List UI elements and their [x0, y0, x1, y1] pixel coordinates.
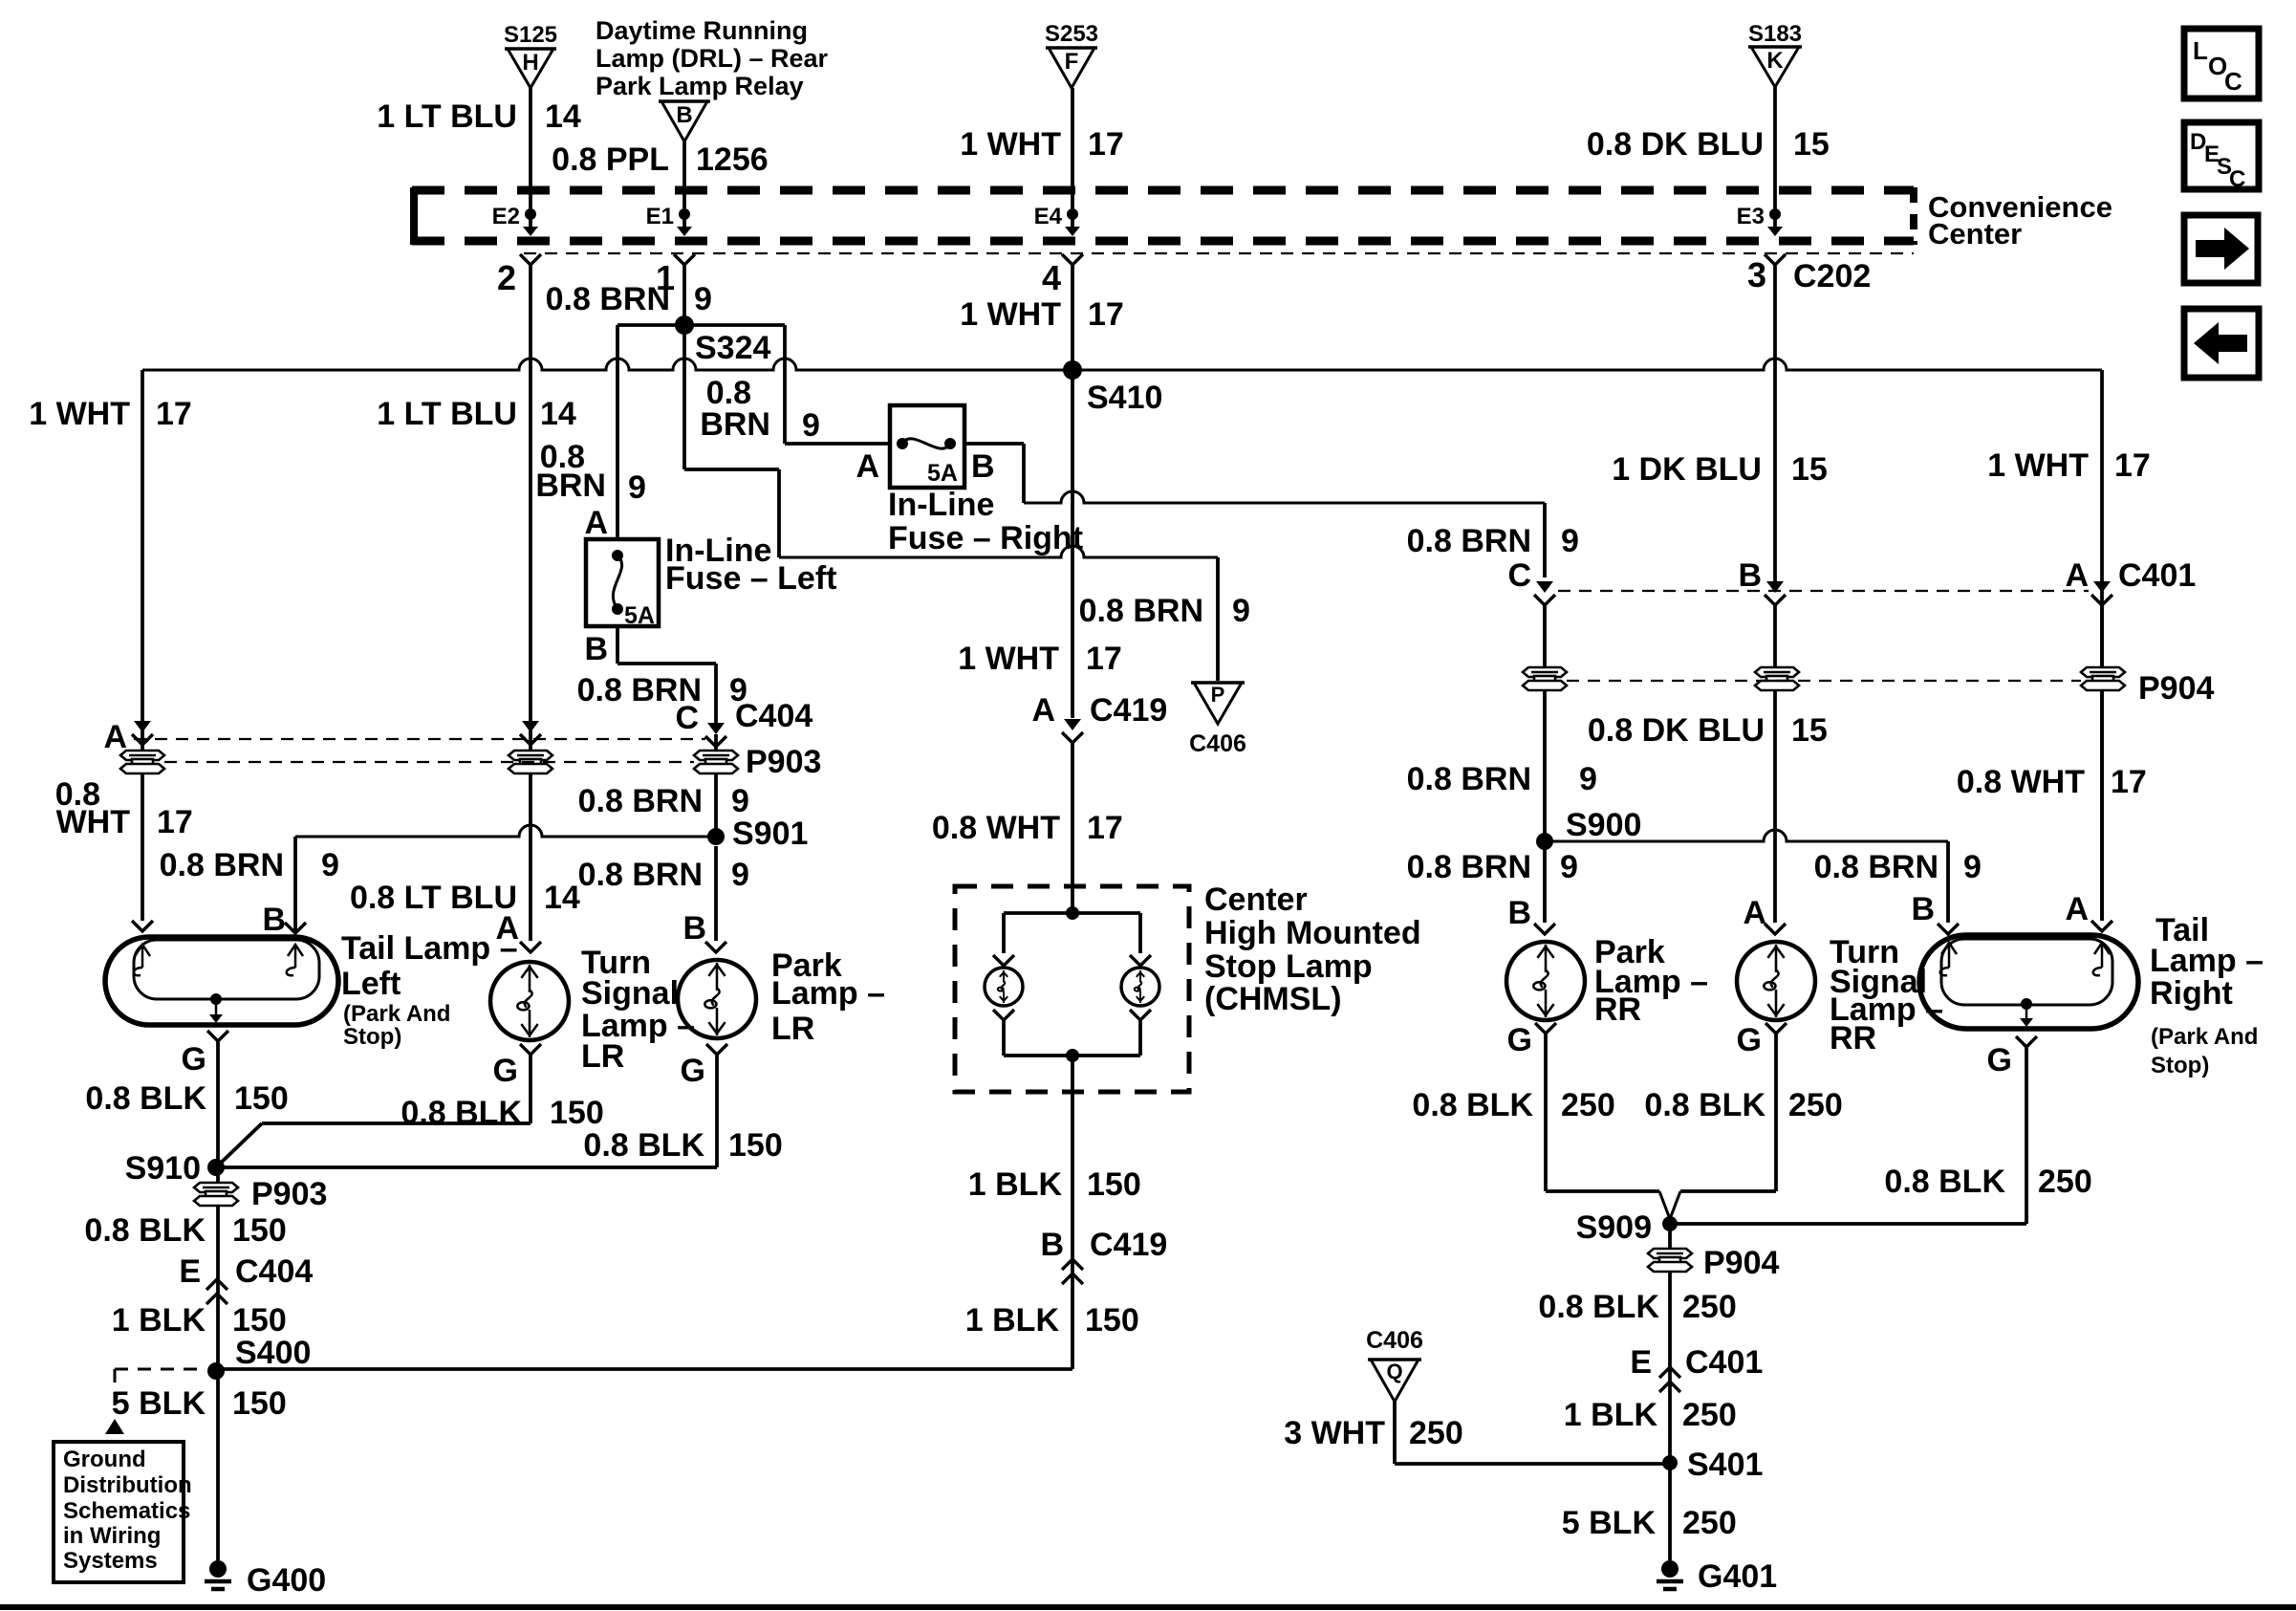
svg-text:Lamp (DRL) – Rear: Lamp (DRL) – Rear — [596, 44, 829, 73]
svg-text:P903: P903 — [251, 1176, 327, 1212]
svg-text:C419: C419 — [1090, 1227, 1167, 1263]
svg-text:150: 150 — [234, 1080, 289, 1117]
svg-text:9: 9 — [1560, 849, 1578, 885]
svg-text:250: 250 — [1682, 1397, 1737, 1433]
svg-text:G: G — [1987, 1042, 2012, 1078]
svg-text:BRN: BRN — [535, 468, 606, 504]
svg-text:A: A — [2065, 557, 2089, 594]
svg-text:S910: S910 — [125, 1150, 201, 1186]
svg-text:0.8 WHT: 0.8 WHT — [932, 810, 1060, 846]
svg-text:0.8 BRN: 0.8 BRN — [578, 857, 703, 893]
svg-text:P: P — [1211, 683, 1225, 707]
svg-text:A: A — [1031, 692, 1055, 729]
svg-text:LR: LR — [771, 1011, 814, 1047]
svg-text:1 LT BLU: 1 LT BLU — [377, 98, 517, 135]
svg-text:0.8 BRN: 0.8 BRN — [578, 783, 703, 819]
svg-text:B: B — [676, 102, 692, 128]
svg-text:9: 9 — [321, 847, 339, 883]
svg-text:Distribution: Distribution — [63, 1472, 192, 1498]
svg-text:Ground: Ground — [63, 1447, 146, 1472]
svg-text:E1: E1 — [646, 204, 674, 229]
svg-text:9: 9 — [802, 407, 820, 444]
svg-text:250: 250 — [1682, 1289, 1737, 1325]
svg-text:1 WHT: 1 WHT — [958, 641, 1059, 677]
svg-text:C406: C406 — [1189, 730, 1246, 757]
svg-text:C419: C419 — [1090, 692, 1167, 729]
svg-text:S900: S900 — [1566, 807, 1641, 843]
svg-text:1 BLK: 1 BLK — [965, 1302, 1060, 1339]
svg-text:S901: S901 — [732, 816, 808, 852]
svg-text:0.8 BRN: 0.8 BRN — [1079, 593, 1203, 629]
svg-text:C401: C401 — [1685, 1344, 1763, 1381]
svg-text:A: A — [103, 719, 127, 755]
svg-text:4: 4 — [1042, 258, 1061, 297]
svg-text:Park Lamp Relay: Park Lamp Relay — [596, 72, 804, 100]
svg-text:G400: G400 — [247, 1562, 326, 1599]
svg-text:1 WHT: 1 WHT — [29, 396, 130, 432]
svg-text:Daytime Running: Daytime Running — [596, 16, 808, 45]
svg-text:S410: S410 — [1087, 380, 1162, 416]
svg-text:C202: C202 — [1793, 258, 1871, 294]
svg-text:9: 9 — [628, 469, 646, 506]
svg-text:0.8 BRN: 0.8 BRN — [1407, 523, 1531, 559]
svg-text:250: 250 — [1682, 1505, 1737, 1541]
svg-text:1 BLK: 1 BLK — [112, 1302, 206, 1339]
svg-text:1 WHT: 1 WHT — [1987, 447, 2089, 484]
svg-text:Q: Q — [1386, 1360, 1402, 1383]
svg-text:G: G — [1507, 1022, 1532, 1058]
svg-text:S253: S253 — [1045, 21, 1098, 47]
svg-text:0.8 BRN: 0.8 BRN — [1407, 761, 1531, 797]
svg-text:Fuse – Left: Fuse – Left — [665, 560, 836, 597]
svg-text:9: 9 — [731, 857, 749, 893]
svg-text:0.8 BLK: 0.8 BLK — [583, 1127, 704, 1164]
svg-text:C: C — [2224, 67, 2242, 96]
svg-text:E2: E2 — [492, 204, 520, 229]
svg-text:5 BLK: 5 BLK — [112, 1385, 206, 1422]
svg-text:S183: S183 — [1748, 21, 1802, 47]
svg-text:K: K — [1766, 48, 1784, 74]
svg-text:Center: Center — [1928, 217, 2022, 250]
svg-text:150: 150 — [232, 1385, 287, 1422]
svg-text:0.8 BRN: 0.8 BRN — [1407, 849, 1531, 885]
svg-text:250: 250 — [1561, 1087, 1615, 1123]
svg-text:Signal: Signal — [581, 975, 679, 1012]
svg-text:G: G — [681, 1053, 705, 1089]
svg-text:B: B — [1911, 891, 1935, 927]
svg-text:17: 17 — [157, 804, 193, 840]
svg-text:E3: E3 — [1737, 204, 1765, 229]
svg-text:(CHMSL): (CHMSL) — [1204, 981, 1342, 1017]
svg-text:0.8 BRN: 0.8 BRN — [546, 281, 670, 317]
svg-text:150: 150 — [728, 1127, 783, 1164]
svg-text:BRN: BRN — [700, 406, 770, 443]
svg-text:Center: Center — [1204, 882, 1308, 918]
svg-text:15: 15 — [1791, 712, 1828, 749]
svg-text:S324: S324 — [695, 330, 770, 366]
svg-text:17: 17 — [1088, 126, 1124, 163]
svg-text:5A: 5A — [927, 460, 958, 487]
svg-text:LR: LR — [581, 1038, 624, 1075]
svg-text:B: B — [971, 448, 995, 485]
svg-text:C404: C404 — [235, 1253, 313, 1290]
svg-text:0.8 BLK: 0.8 BLK — [1884, 1164, 2005, 1200]
svg-text:E4: E4 — [1034, 204, 1063, 229]
svg-text:A: A — [856, 448, 879, 485]
svg-text:1256: 1256 — [696, 142, 769, 178]
svg-text:B: B — [1507, 895, 1531, 931]
svg-text:1 WHT: 1 WHT — [960, 296, 1061, 333]
svg-text:0.8 BRN: 0.8 BRN — [1814, 849, 1939, 885]
svg-text:0.8 DK BLU: 0.8 DK BLU — [1588, 712, 1765, 749]
svg-text:S125: S125 — [504, 22, 557, 48]
svg-text:C: C — [1507, 557, 1531, 594]
svg-text:1 BLK: 1 BLK — [968, 1166, 1063, 1203]
svg-text:Stop Lamp: Stop Lamp — [1204, 948, 1373, 985]
svg-text:A: A — [2065, 891, 2089, 927]
svg-text:5A: 5A — [624, 602, 655, 629]
svg-text:0.8 PPL: 0.8 PPL — [552, 142, 669, 178]
svg-text:G: G — [182, 1041, 206, 1078]
svg-text:9: 9 — [731, 783, 749, 819]
svg-text:High Mounted: High Mounted — [1204, 915, 1421, 951]
svg-text:B: B — [1040, 1227, 1064, 1263]
svg-text:P904: P904 — [1703, 1245, 1779, 1281]
svg-text:9: 9 — [1232, 593, 1250, 629]
svg-text:0.8 DK BLU: 0.8 DK BLU — [1587, 126, 1764, 163]
svg-text:E: E — [179, 1253, 201, 1290]
svg-text:17: 17 — [1088, 296, 1124, 333]
svg-text:H: H — [522, 50, 538, 76]
svg-text:9: 9 — [1963, 849, 1982, 885]
svg-text:14: 14 — [544, 880, 580, 916]
svg-text:C404: C404 — [735, 698, 812, 734]
svg-text:150: 150 — [1085, 1302, 1139, 1339]
svg-text:Tail Lamp –: Tail Lamp – — [341, 930, 518, 967]
svg-text:2: 2 — [497, 258, 516, 297]
svg-text:in Wiring: in Wiring — [63, 1523, 161, 1549]
svg-text:17: 17 — [2111, 764, 2147, 800]
svg-text:Right: Right — [2150, 975, 2233, 1012]
svg-text:B: B — [584, 631, 608, 667]
svg-text:Left: Left — [341, 966, 401, 1002]
svg-text:B: B — [682, 910, 706, 947]
svg-text:B: B — [262, 902, 286, 938]
svg-text:1 DK BLU: 1 DK BLU — [1612, 451, 1762, 488]
svg-text:15: 15 — [1793, 126, 1830, 163]
svg-text:0.8 BLK: 0.8 BLK — [1644, 1087, 1765, 1123]
svg-text:F: F — [1065, 49, 1079, 75]
svg-text:C: C — [675, 700, 699, 736]
svg-text:0.8 BLK: 0.8 BLK — [84, 1212, 206, 1249]
svg-text:P903: P903 — [746, 744, 821, 780]
svg-text:150: 150 — [550, 1095, 604, 1131]
svg-text:S909: S909 — [1576, 1209, 1652, 1246]
svg-text:0.8 BRN: 0.8 BRN — [160, 847, 284, 883]
svg-text:0.8 BLK: 0.8 BLK — [1538, 1289, 1659, 1325]
svg-text:RR: RR — [1830, 1020, 1876, 1056]
svg-text:17: 17 — [156, 396, 192, 432]
svg-text:9: 9 — [694, 281, 712, 317]
svg-text:Stop): Stop) — [343, 1024, 401, 1050]
svg-text:250: 250 — [1409, 1415, 1463, 1451]
svg-text:17: 17 — [1087, 810, 1123, 846]
svg-text:250: 250 — [1788, 1087, 1843, 1123]
svg-text:0.8 LT BLU: 0.8 LT BLU — [350, 880, 517, 916]
svg-text:In-Line: In-Line — [888, 487, 994, 523]
svg-text:5 BLK: 5 BLK — [1562, 1505, 1657, 1541]
svg-text:Lamp –: Lamp – — [771, 975, 885, 1012]
svg-text:17: 17 — [1086, 641, 1122, 677]
svg-text:RR: RR — [1594, 991, 1641, 1028]
svg-text:Lamp –: Lamp – — [2150, 943, 2264, 979]
svg-text:15: 15 — [1791, 451, 1828, 488]
svg-text:150: 150 — [232, 1302, 287, 1339]
svg-text:0.8 WHT: 0.8 WHT — [1957, 764, 2085, 800]
svg-text:14: 14 — [545, 98, 581, 135]
svg-text:Stop): Stop) — [2151, 1053, 2209, 1078]
svg-text:1 LT BLU: 1 LT BLU — [377, 396, 517, 432]
svg-text:P904: P904 — [2138, 670, 2214, 707]
svg-text:G: G — [1737, 1022, 1762, 1058]
svg-text:14: 14 — [540, 396, 576, 432]
svg-text:L: L — [2193, 36, 2208, 65]
svg-text:Fuse – Right: Fuse – Right — [888, 520, 1083, 556]
svg-text:0.8 BLK: 0.8 BLK — [401, 1095, 522, 1131]
svg-text:1 WHT: 1 WHT — [960, 126, 1061, 163]
svg-text:C406: C406 — [1366, 1327, 1423, 1354]
svg-text:A: A — [1743, 895, 1766, 931]
svg-text:G: G — [493, 1053, 518, 1089]
svg-text:0.8 BLK: 0.8 BLK — [1412, 1087, 1533, 1123]
svg-text:0.8 BLK: 0.8 BLK — [85, 1080, 206, 1117]
svg-text:(Park And: (Park And — [343, 1001, 450, 1027]
svg-text:3: 3 — [1747, 255, 1766, 294]
svg-text:Schematics: Schematics — [63, 1498, 190, 1524]
svg-text:C: C — [2229, 166, 2245, 192]
svg-text:9: 9 — [1561, 523, 1579, 559]
svg-text:Systems: Systems — [63, 1548, 158, 1574]
svg-text:E: E — [1630, 1344, 1652, 1381]
svg-text:B: B — [1738, 557, 1762, 594]
svg-text:150: 150 — [1087, 1166, 1141, 1203]
svg-text:(Park And: (Park And — [2151, 1024, 2258, 1050]
svg-text:3 WHT: 3 WHT — [1284, 1415, 1385, 1451]
svg-text:17: 17 — [2114, 447, 2151, 484]
svg-text:WHT: WHT — [56, 804, 131, 840]
svg-text:G401: G401 — [1698, 1558, 1777, 1595]
svg-text:S401: S401 — [1687, 1447, 1763, 1483]
svg-text:A: A — [584, 505, 608, 541]
svg-text:150: 150 — [232, 1212, 287, 1249]
svg-text:9: 9 — [1579, 761, 1597, 797]
svg-text:C401: C401 — [2118, 557, 2196, 594]
svg-text:S400: S400 — [235, 1335, 311, 1371]
svg-text:1 BLK: 1 BLK — [1564, 1397, 1658, 1433]
svg-text:250: 250 — [2038, 1164, 2092, 1200]
